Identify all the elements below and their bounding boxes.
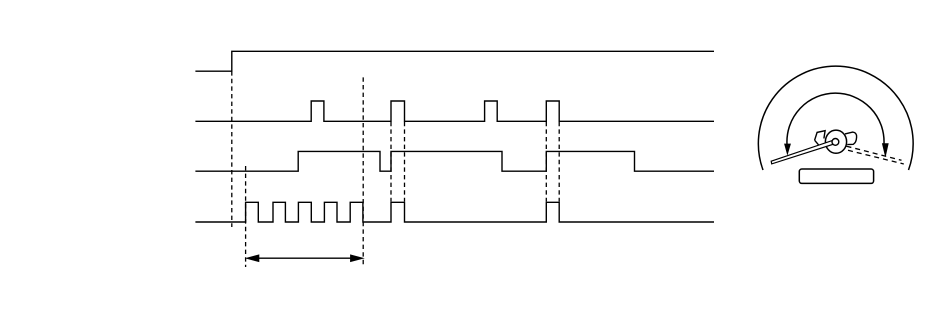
gauge ghost needle upper dashed edge: [847, 146, 902, 160]
dashed marker line at pulse x=546 left edge: [545, 122, 547, 202]
dashed marker line at pulse x=559 right edge: [558, 122, 560, 202]
dashed marker line at pulse x=391 left edge: [390, 122, 392, 202]
gauge ghost needle lower dashed edge: [848, 150, 904, 164]
waveform trace 2: [195, 101, 714, 121]
gauge sweep inner arc: [787, 93, 884, 144]
waveform trace 1: [195, 51, 714, 71]
gauge bezel outer arc: [758, 66, 913, 170]
waveform trace 4 burst and pulses: [195, 202, 714, 222]
dashed marker line at trace 1 rising edge: [231, 71, 233, 227]
gauge hub outer circle: [825, 130, 846, 153]
gauge pivot small circle: [832, 139, 839, 146]
gauge label plate (rounded rectangle): [799, 169, 873, 183]
gauge sweep right arrowhead: [882, 144, 888, 157]
gauge flag tail: [815, 140, 819, 145]
time-span arrow right head: [351, 255, 364, 262]
gauge sweep left arrowhead: [785, 144, 791, 154]
time-span arrow left head: [246, 255, 259, 262]
dashed marker line at burst end: [362, 77, 364, 267]
gauge tab right: [845, 132, 857, 145]
gauge needle (solid, pointing lower-left): [771, 140, 835, 164]
gauge counterweight flag left: [815, 131, 826, 141]
time-span dimension arrow shaft: [250, 257, 359, 259]
waveform trace 3: [195, 151, 714, 171]
dashed marker line at burst start: [245, 166, 247, 267]
dashed marker line at pulse x=404 right edge: [404, 122, 406, 202]
